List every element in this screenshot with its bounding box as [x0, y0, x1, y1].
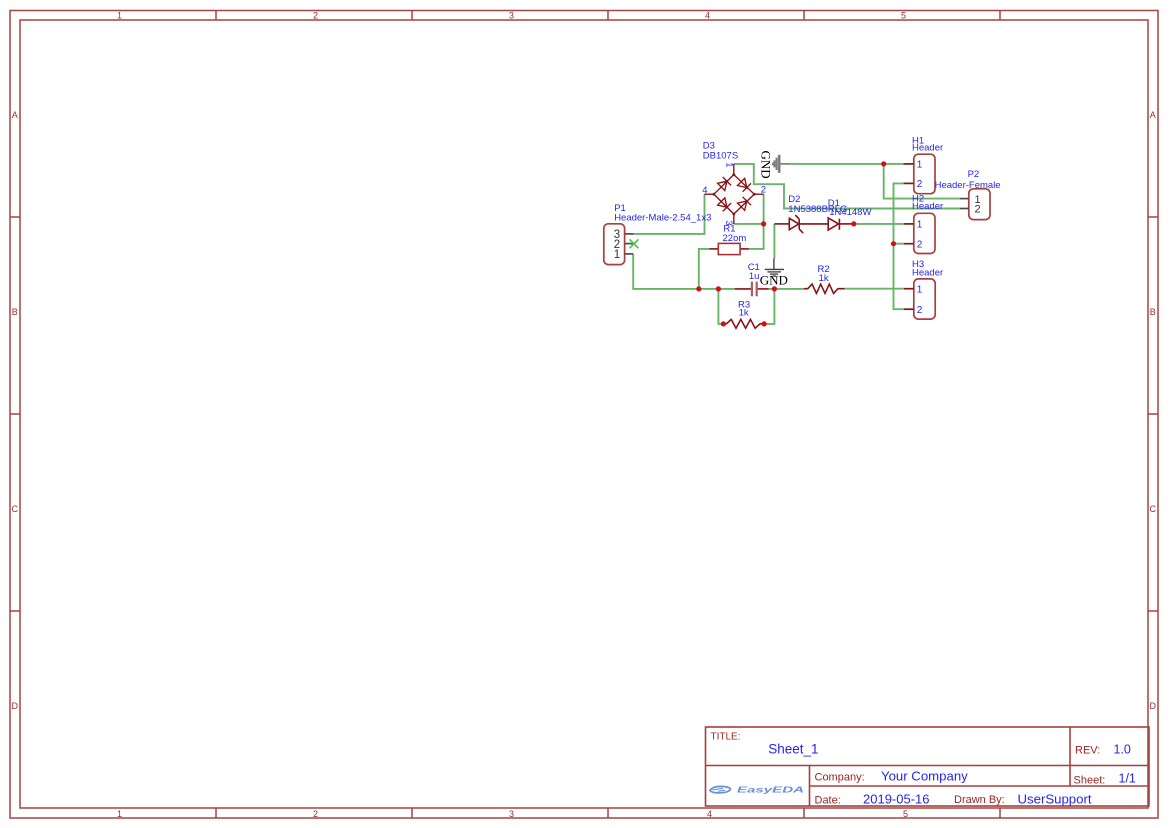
- wire C1 right to R2 left: [768, 288, 804, 290]
- wire R3 right branch: [764, 289, 774, 324]
- svg-text:Sheet_1: Sheet_1: [768, 742, 818, 757]
- svg-text:Date:: Date:: [815, 795, 841, 807]
- svg-text:2: 2: [313, 11, 318, 21]
- capacitor C1: [735, 282, 769, 297]
- wire bridge pin4 to P1 pin 3: [634, 194, 705, 234]
- connector P2: [960, 189, 990, 220]
- svg-text:1: 1: [723, 162, 734, 167]
- ruler tick bottom 4: [803, 808, 805, 818]
- ruler tick bottom 3: [607, 808, 609, 818]
- svg-text:1.0: 1.0: [1114, 743, 1131, 757]
- wire R3 left branch: [718, 289, 723, 324]
- title block outline: [706, 727, 1150, 806]
- svg-text:Header-Female: Header-Female: [935, 180, 1001, 191]
- svg-text:1u: 1u: [749, 271, 760, 282]
- ruler tick right B-C: [1148, 413, 1158, 415]
- svg-text:4: 4: [705, 11, 710, 21]
- svg-text:D2: D2: [788, 194, 800, 205]
- svg-text:TITLE:: TITLE:: [711, 732, 741, 743]
- svg-text:B: B: [1150, 307, 1156, 317]
- svg-text:Drawn By:: Drawn By:: [954, 794, 1005, 806]
- svg-text:Header-Male-2.54_1x3: Header-Male-2.54_1x3: [614, 213, 711, 224]
- svg-text:REV:: REV:: [1075, 745, 1100, 757]
- D3 diode lower-left: [718, 198, 727, 207]
- svg-text:1: 1: [917, 284, 923, 295]
- wire bridge pin1 to P2 pin 2: [734, 164, 960, 209]
- junction dot bottom node C1 right: [772, 286, 777, 291]
- junction dot D1 cathode node: [851, 221, 856, 226]
- junction dot R3 lead right: [762, 321, 767, 326]
- diode D1 (1N4148W): [828, 218, 854, 230]
- svg-text:1k: 1k: [739, 308, 749, 319]
- bridge rectifier D3: [704, 164, 763, 224]
- svg-text:1: 1: [117, 809, 122, 819]
- svg-text:2: 2: [761, 185, 766, 196]
- ruler tick left B-C: [10, 413, 20, 415]
- svg-text:Header: Header: [912, 268, 943, 279]
- EasyEDA logo: [710, 785, 804, 795]
- svg-text:Sheet:: Sheet:: [1074, 775, 1106, 787]
- D3 diode upper-right: [738, 178, 747, 187]
- wire junction to P2 pin 1: [884, 164, 960, 199]
- wire bridge pin3 to node: [734, 223, 764, 225]
- svg-text:Header: Header: [912, 143, 943, 154]
- svg-text:1: 1: [917, 220, 923, 231]
- svg-text:22om: 22om: [723, 233, 747, 244]
- wire GND1 to H1 pin 1: [790, 163, 904, 165]
- wire H1 pin2 down to H3 pin2: [894, 183, 904, 309]
- svg-text:4: 4: [702, 185, 707, 196]
- ground GND1 (left-pointing, rotated earth bars): [773, 155, 790, 173]
- wire stub to H2 pin2: [894, 243, 904, 245]
- svg-text:1N4148W: 1N4148W: [829, 207, 871, 218]
- D3 diode lower-right: [738, 201, 747, 210]
- connector H2: [904, 213, 935, 253]
- title block divider under title row: [706, 765, 1150, 767]
- ruler tick right C-D: [1148, 610, 1158, 612]
- svg-text:3: 3: [509, 809, 514, 819]
- wire D2 anode to GND2: [773, 224, 775, 259]
- svg-text:2: 2: [917, 179, 923, 190]
- svg-text:A: A: [12, 110, 18, 120]
- svg-text:UserSupport: UserSupport: [1018, 792, 1092, 807]
- svg-text:D: D: [1150, 701, 1157, 711]
- svg-text:A: A: [1150, 110, 1156, 120]
- ruler tick bottom 5: [999, 808, 1001, 818]
- svg-text:DB107S: DB107S: [703, 150, 738, 161]
- svg-text:1: 1: [117, 11, 122, 21]
- svg-text:1/1: 1/1: [1119, 772, 1136, 786]
- wire R2 right to H3 pin 1: [845, 288, 904, 290]
- junction dot bottom node left: [696, 286, 701, 291]
- ruler tick top 4: [803, 11, 805, 21]
- svg-text:3: 3: [509, 11, 514, 21]
- svg-text:1: 1: [917, 160, 923, 171]
- svg-text:1k: 1k: [819, 273, 829, 284]
- ruler tick top 2: [411, 11, 413, 21]
- svg-text:C: C: [12, 504, 19, 514]
- svg-text:2: 2: [975, 204, 981, 216]
- ruler tick bottom 1: [215, 808, 217, 818]
- connector P1: [604, 224, 634, 265]
- svg-text:GND: GND: [760, 273, 788, 288]
- ruler tick top 1: [215, 11, 217, 21]
- wire R1 right up to bridge pin2: [749, 194, 764, 249]
- no-connect X on P1 pin 2: [630, 239, 639, 248]
- wire P1 pin1 to C1 left node: [633, 254, 735, 289]
- resistor R2 (zigzag): [804, 284, 845, 293]
- svg-text:C: C: [1150, 504, 1157, 514]
- svg-text:5: 5: [903, 809, 908, 819]
- svg-text:2: 2: [917, 305, 923, 316]
- diode D2 (zener 1N5388BRLG): [774, 215, 828, 233]
- svg-text:4: 4: [707, 809, 712, 819]
- title block vertical divider logo cell: [809, 766, 811, 807]
- svg-text:1: 1: [614, 249, 620, 261]
- title block: [706, 727, 1150, 806]
- svg-text:Your Company: Your Company: [881, 769, 968, 784]
- D3 diode upper-left: [718, 181, 727, 190]
- junction dot bottom node R3 left: [716, 286, 721, 291]
- junction dot R3 lead left: [721, 321, 726, 326]
- svg-text:P2: P2: [968, 169, 980, 180]
- ground GND2 (earth): [765, 259, 784, 277]
- junction dot H2 pin2 node: [891, 241, 896, 246]
- svg-text:2019-05-16: 2019-05-16: [863, 792, 930, 807]
- ruler tick top 5: [999, 11, 1001, 21]
- title block vertical divider rev column: [1069, 727, 1071, 786]
- svg-text:D: D: [12, 701, 19, 711]
- title block divider under company row: [810, 785, 1150, 787]
- svg-text:Header: Header: [912, 201, 943, 212]
- svg-text:GND: GND: [759, 151, 774, 179]
- svg-text:2: 2: [313, 809, 318, 819]
- wire R1 left to bottom node: [699, 249, 710, 289]
- connector H3: [904, 279, 935, 319]
- resistor R3 (zigzag): [723, 319, 764, 328]
- ruler tick top 3: [607, 11, 609, 21]
- svg-text:B: B: [12, 307, 18, 317]
- ruler tick right A-B: [1148, 216, 1158, 218]
- svg-text:2: 2: [917, 239, 923, 250]
- ruler tick left A-B: [10, 216, 20, 218]
- wire D1 cathode to H2 pin 1: [854, 223, 904, 225]
- junction dot GND/H1 node: [881, 161, 886, 166]
- svg-text:EasyEDA: EasyEDA: [737, 785, 804, 795]
- junction dot bridge output node: [761, 221, 766, 226]
- ruler tick left C-D: [10, 610, 20, 612]
- connector H1: [904, 154, 935, 194]
- svg-text:5: 5: [901, 11, 906, 21]
- svg-text:Company:: Company:: [815, 772, 865, 784]
- ruler tick bottom 2: [411, 808, 413, 818]
- resistor R1 (box style): [709, 243, 749, 254]
